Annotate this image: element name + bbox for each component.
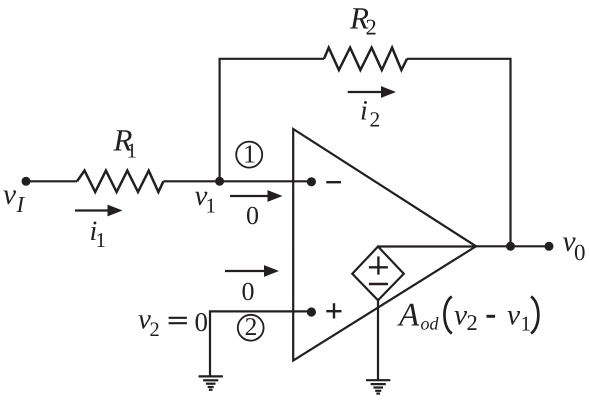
svg-text:v: v bbox=[507, 300, 521, 332]
svg-text:od: od bbox=[421, 314, 440, 334]
svg-text:2: 2 bbox=[370, 108, 381, 132]
svg-text:I: I bbox=[16, 192, 26, 217]
svg-text:i: i bbox=[360, 96, 368, 127]
svg-text:2: 2 bbox=[366, 15, 377, 40]
svg-text:0: 0 bbox=[195, 307, 209, 337]
svg-text:0: 0 bbox=[242, 277, 255, 306]
svg-text:1: 1 bbox=[96, 228, 107, 252]
svg-text:2: 2 bbox=[245, 312, 258, 341]
svg-text:1: 1 bbox=[206, 194, 217, 218]
svg-text:1: 1 bbox=[243, 140, 256, 169]
svg-text:1: 1 bbox=[521, 312, 532, 336]
svg-text:A: A bbox=[397, 297, 420, 333]
svg-text:2: 2 bbox=[150, 319, 160, 341]
svg-text:2: 2 bbox=[467, 310, 478, 335]
svg-text:0: 0 bbox=[574, 240, 586, 265]
svg-text:0: 0 bbox=[246, 201, 259, 230]
svg-text:v: v bbox=[3, 179, 17, 211]
svg-text:1: 1 bbox=[127, 138, 138, 162]
